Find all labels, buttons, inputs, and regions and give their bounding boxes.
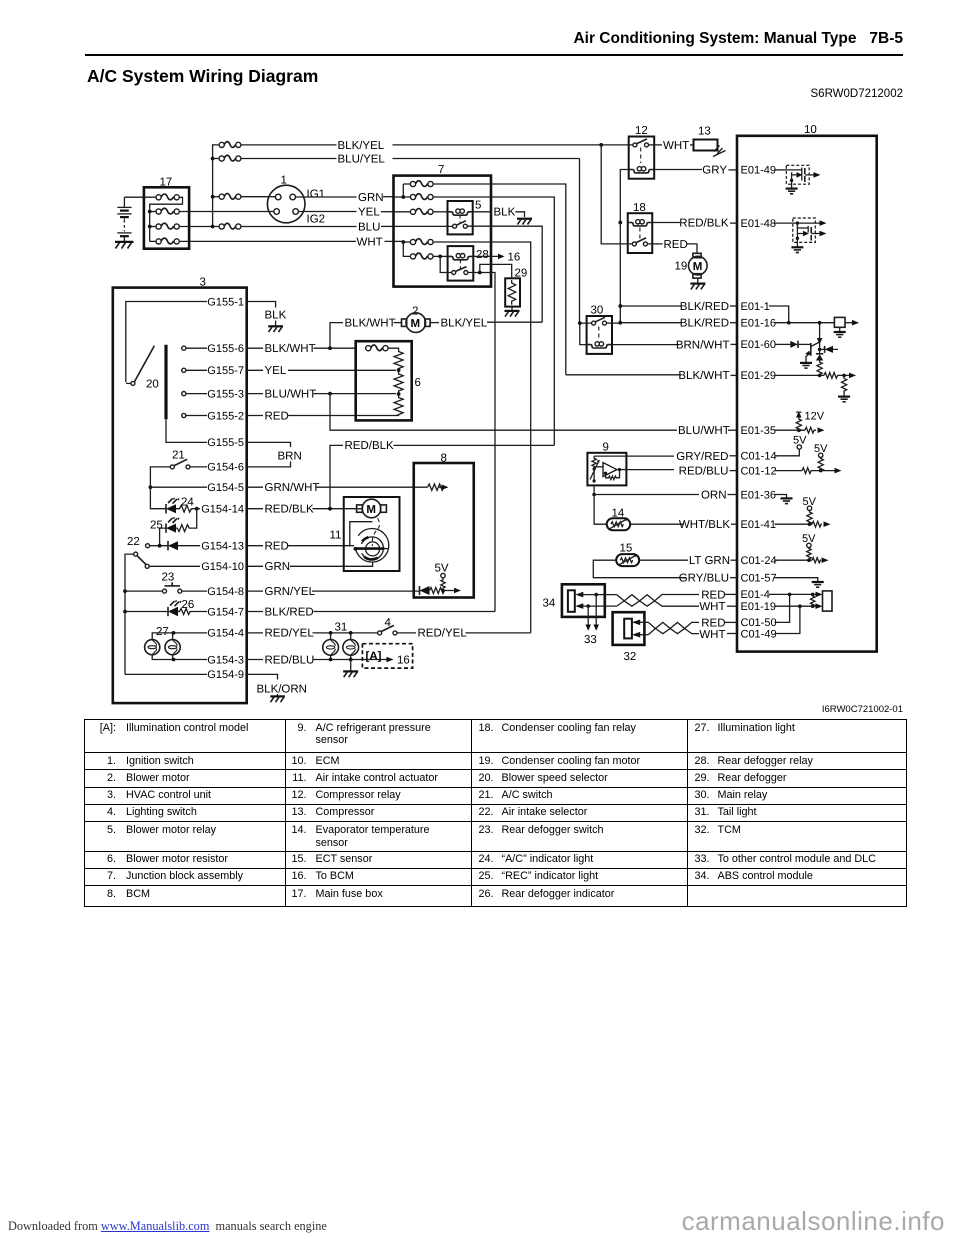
actuator motor M — [357, 499, 387, 518]
svg-text:12V: 12V — [805, 411, 825, 423]
fuse 17c — [150, 223, 180, 229]
terminal C01-49 — [741, 606, 800, 640]
wire fuse7a to E01-29 riser — [433, 184, 566, 375]
terminal E01-36 ground — [741, 489, 793, 503]
svg-text:BLU: BLU — [358, 221, 380, 233]
ABS control module 34 — [543, 584, 605, 617]
ground BLK/ORN — [270, 696, 285, 702]
ground under 31 — [343, 660, 358, 678]
wire fuse17a S-jog to bus — [150, 197, 183, 209]
vertical feed bus — [213, 145, 219, 227]
wire TCM RED pair — [632, 620, 648, 626]
svg-text:G154-10: G154-10 — [201, 561, 244, 573]
svg-text:WHT: WHT — [699, 629, 725, 641]
svg-text:C01-50: C01-50 — [741, 617, 777, 629]
wire relay18 coil RED/BLK — [652, 218, 737, 230]
ground BLK hvac — [268, 326, 283, 332]
wire LT GRN C01-24 — [639, 555, 737, 567]
svg-text:GRN/YEL: GRN/YEL — [265, 586, 316, 598]
vertical relay coils feed — [619, 223, 621, 323]
terminal E01-29 — [741, 370, 857, 402]
svg-text:16: 16 — [397, 655, 410, 667]
svg-text:23: 23 — [162, 572, 175, 584]
wire RED/BLK riser to ignition feed — [330, 440, 554, 509]
REC indicator light 25 — [150, 509, 197, 544]
diode resistor 5V inside BCM — [419, 563, 461, 596]
wire G154-14 RED/BLK to actuator — [247, 504, 362, 516]
wire battery to main fuse box — [124, 196, 152, 198]
svg-text:27: 27 — [156, 626, 169, 638]
terminal E01-41 — [741, 496, 831, 531]
svg-text:E01-41: E01-41 — [741, 519, 776, 531]
terminal C01-14 — [741, 435, 808, 463]
wire GRN fuse to IG1 — [241, 196, 275, 198]
svg-text:18: 18 — [633, 202, 646, 214]
svg-text:ORN: ORN — [701, 489, 727, 501]
terminal G155-2 — [182, 410, 244, 422]
svg-text:BLK/YEL: BLK/YEL — [441, 317, 488, 329]
svg-text:M: M — [366, 504, 376, 516]
svg-text:G155-7: G155-7 — [207, 365, 244, 377]
wire WHT into box7 — [385, 240, 404, 242]
svg-text:BLK/RED: BLK/RED — [265, 606, 314, 618]
fuse 7a — [403, 181, 433, 187]
wire relay12 WHT to compressor — [649, 140, 694, 152]
ground under 29 — [505, 307, 520, 317]
terminal G154-14 — [195, 504, 244, 516]
svg-text:E01-49: E01-49 — [741, 165, 776, 177]
wire G155-2 RED — [247, 410, 399, 422]
diode transistor circuit E01-60 — [790, 323, 838, 376]
wire BLU to relay5 switch — [394, 225, 453, 227]
svg-text:GRN/WHT: GRN/WHT — [265, 482, 320, 494]
svg-text:19: 19 — [675, 261, 688, 273]
wire GRY/BLU C01-57 — [593, 560, 737, 584]
mosfet driver E01-49 — [786, 165, 821, 194]
termination resistor between E01-4 E01-19 — [811, 594, 815, 606]
blower motor 2 — [402, 306, 431, 333]
svg-text:GRY/BLU: GRY/BLU — [679, 573, 729, 585]
junction block assembly 7 — [394, 164, 492, 287]
wire relay28 switch out — [468, 273, 495, 612]
svg-text:C01-24: C01-24 — [741, 555, 777, 567]
wire G154-9 BLK/ORN to ground — [247, 674, 307, 696]
svg-text:13: 13 — [698, 126, 711, 138]
fuse 7d — [403, 239, 433, 245]
rear defogger relay 28 — [448, 246, 489, 281]
svg-text:IG1: IG1 — [307, 189, 326, 201]
svg-text:7: 7 — [438, 164, 444, 176]
svg-text:5V: 5V — [435, 563, 449, 575]
svg-text:G155-3: G155-3 — [207, 388, 244, 400]
wire G154-10 GRN to actuator — [247, 561, 373, 573]
wire WHT E01-19 — [699, 601, 737, 613]
node GRN feed — [401, 195, 405, 199]
svg-text:BLU/WHT: BLU/WHT — [678, 425, 730, 437]
wire sensor9 ORN E01-36 — [592, 485, 737, 501]
svg-text:RED: RED — [265, 410, 289, 422]
svg-text:G154-9: G154-9 — [207, 669, 244, 681]
svg-text:2: 2 — [412, 306, 418, 318]
svg-text:BLK/RED: BLK/RED — [680, 301, 729, 313]
svg-text:E01-35: E01-35 — [741, 425, 776, 437]
svg-text:34: 34 — [543, 598, 556, 610]
svg-text:RED: RED — [701, 617, 725, 629]
svg-text:E01-60: E01-60 — [741, 339, 776, 351]
svg-text:28: 28 — [476, 249, 489, 261]
svg-text:5V: 5V — [793, 435, 807, 447]
svg-text:YEL: YEL — [265, 365, 287, 377]
svg-text:WHT/BLK: WHT/BLK — [679, 519, 730, 531]
wire G155-3 BLU/WHT — [247, 388, 396, 400]
wire branch to blower motor — [330, 317, 402, 348]
svg-text:RED/YEL: RED/YEL — [418, 628, 468, 640]
svg-text:G155-5: G155-5 — [207, 437, 244, 449]
lighting switch 4 — [378, 617, 531, 640]
wire G154-7 BLK/RED — [247, 606, 495, 618]
connector rect — [823, 591, 833, 611]
wire G155-6 BLK/WHT — [247, 343, 356, 355]
wire ABS RED pair — [575, 592, 616, 598]
svg-text:G154-7: G154-7 — [207, 606, 244, 618]
fuse 17b — [150, 208, 180, 214]
svg-text:3: 3 — [200, 277, 206, 289]
fuse 6a — [366, 345, 388, 351]
svg-text:BLU/WHT: BLU/WHT — [265, 388, 317, 400]
terminal C01-50 — [741, 594, 790, 629]
wire fuse7d out to RED/YEL drop — [433, 242, 531, 633]
12V supply — [796, 411, 825, 434]
arrows 33 to other modules — [584, 595, 599, 646]
svg-text:RED/YEL: RED/YEL — [265, 628, 315, 640]
node BLK/YEL to relay18 drop — [599, 143, 603, 147]
fuse 7c — [394, 209, 434, 215]
svg-text:BLK: BLK — [265, 310, 287, 322]
sensor square E01-16 — [834, 317, 859, 337]
svg-text:E01-4: E01-4 — [741, 589, 770, 601]
svg-text:22: 22 — [127, 536, 140, 548]
svg-text:10: 10 — [804, 124, 817, 136]
fuse FB (BLU/YEL) — [213, 155, 241, 161]
svg-text:9: 9 — [603, 442, 609, 454]
battery B1 — [117, 197, 131, 241]
wire relay28 coil feed jog — [440, 256, 452, 272]
ignition switch 1 — [267, 175, 325, 226]
svg-text:25: 25 — [150, 520, 163, 532]
svg-text:GRY/RED: GRY/RED — [676, 451, 728, 463]
wire WHT C01-49 — [699, 629, 737, 641]
svg-text:WHT: WHT — [357, 236, 383, 248]
wire GRY/RED C01-14 — [626, 451, 737, 463]
wire relay5 coil to BLK ground — [473, 207, 525, 219]
svg-text:RED/BLU: RED/BLU — [265, 654, 315, 666]
svg-text:16: 16 — [508, 251, 521, 263]
wire TCM WHT pair — [632, 632, 648, 638]
fuse 7e — [403, 242, 433, 259]
svg-text:E01-36: E01-36 — [741, 489, 776, 501]
svg-text:GRN: GRN — [358, 192, 384, 204]
wire G154-4 RED/YEL — [247, 628, 378, 640]
double mosfet driver E01-48 — [791, 218, 826, 253]
twisted pair 34 — [617, 595, 699, 607]
resistor + arrow GRN/WHT inside BCM — [428, 484, 449, 490]
pressure sensor 9 — [587, 442, 626, 486]
fuse 17a — [152, 194, 179, 200]
ECM 10 — [737, 124, 877, 652]
wire G155-1 BLK to ground — [247, 302, 287, 326]
svg-text:20: 20 — [146, 379, 159, 391]
svg-text:M: M — [411, 318, 421, 330]
svg-text:1: 1 — [281, 175, 287, 187]
svg-text:BLK/YEL: BLK/YEL — [338, 140, 385, 152]
wire BLK/YEL top — [241, 140, 633, 152]
svg-text:BLK/ORN: BLK/ORN — [257, 684, 308, 696]
main relay 30 — [587, 305, 612, 354]
wire fuse7b GRN to RED/BLK riser — [433, 197, 554, 445]
node relay18 coil — [618, 221, 622, 225]
svg-text:M: M — [693, 261, 703, 273]
wire fuse17d WHT out — [179, 240, 356, 242]
svg-text:RED/BLK: RED/BLK — [265, 504, 315, 516]
node bus-BLU — [211, 225, 215, 229]
svg-text:G154-8: G154-8 — [207, 586, 244, 598]
wire G154-8 GRN/YEL to BCM — [247, 586, 419, 598]
illumination lights 27 — [145, 626, 244, 666]
terminal E01-19 — [741, 601, 823, 613]
terminal E01-35 — [741, 425, 806, 437]
svg-text:RED/BLK: RED/BLK — [345, 440, 395, 452]
terminal E01-48 — [741, 218, 793, 230]
wire BLU/YEL drop to relay 30 — [579, 159, 581, 324]
ECT sensor 15 — [616, 543, 639, 567]
rear defogger 29 — [505, 268, 527, 307]
svg-text:32: 32 — [624, 651, 637, 663]
wire G154-3 RED/BLU — [247, 654, 410, 666]
svg-text:G154-3: G154-3 — [207, 654, 244, 666]
svg-text:GRY: GRY — [702, 165, 727, 177]
wire relay30 switch BLK/RED E01-16 — [607, 318, 738, 330]
wire fuse7c to relay5 coil — [433, 211, 447, 213]
svg-text:6: 6 — [415, 377, 421, 389]
terminal E01-4 — [741, 589, 823, 601]
svg-text:WHT: WHT — [699, 601, 725, 613]
condenser fan relay 18 — [628, 202, 653, 253]
wire relay12 coil GRY — [654, 165, 737, 177]
wire RED/BLU C01-12 — [626, 465, 737, 477]
svg-text:BLK: BLK — [494, 207, 516, 219]
fuse 7b — [394, 194, 434, 200]
actuator drum — [350, 518, 389, 562]
terminal E01-60 — [741, 339, 791, 351]
svg-text:GRN: GRN — [265, 561, 291, 573]
terminal C01-24 — [741, 533, 829, 567]
svg-text:BLK/WHT: BLK/WHT — [345, 317, 396, 329]
svg-text:RED: RED — [664, 239, 688, 251]
wire relay30 coil BRN/WHT E01-60 — [612, 339, 737, 351]
svg-text:31: 31 — [335, 622, 348, 634]
svg-text:G154-4: G154-4 — [207, 628, 244, 640]
wire fuse7e to relay28 — [433, 255, 448, 257]
wire relay18 switch RED to fan motor — [647, 239, 697, 253]
svg-text:29: 29 — [515, 268, 528, 280]
svg-text:33: 33 — [584, 634, 597, 646]
svg-text:E01-48: E01-48 — [741, 218, 776, 230]
svg-text:11: 11 — [330, 530, 342, 542]
svg-text:LT GRN: LT GRN — [689, 555, 730, 567]
twisted pair 32 — [648, 622, 699, 634]
svg-text:BLU/YEL: BLU/YEL — [338, 154, 386, 166]
wire BLK/RED E01-1 — [620, 301, 737, 313]
main fuse box 17 — [144, 177, 189, 249]
svg-text:C01-14: C01-14 — [741, 451, 777, 463]
node WHT feed — [401, 240, 405, 244]
svg-text:BLK/WHT: BLK/WHT — [678, 370, 729, 382]
blower motor relay 5 — [448, 200, 482, 235]
terminal G154-9 — [125, 669, 244, 681]
svg-text:C01-57: C01-57 — [741, 573, 777, 585]
HVAC control unit 3 — [113, 277, 247, 704]
wire node to relay30 switch and coil — [580, 323, 592, 345]
bus fuse7a-7b — [402, 184, 404, 197]
terminal G155-1 — [126, 296, 244, 382]
BCM 8 — [414, 453, 474, 598]
svg-text:24: 24 — [181, 497, 194, 509]
fuse FC (GRN/IG1) — [213, 193, 241, 199]
wire BLU/WHT branch to E01-35 — [330, 394, 737, 438]
svg-text:C01-12: C01-12 — [741, 465, 777, 477]
svg-text:15: 15 — [620, 543, 633, 555]
wire RED C01-50 — [701, 617, 737, 629]
svg-text:21: 21 — [172, 450, 185, 462]
blower speed selector 20 — [126, 345, 207, 443]
condenser fan motor 19 — [675, 253, 708, 283]
A/C indicator light 24 — [150, 487, 196, 513]
wire BLU — [241, 221, 394, 233]
svg-text:5: 5 — [475, 200, 481, 212]
svg-text:WHT: WHT — [663, 140, 689, 152]
svg-text:C01-49: C01-49 — [741, 628, 777, 640]
svg-text:RED: RED — [701, 589, 725, 601]
svg-text:30: 30 — [591, 305, 604, 317]
svg-text:G154-13: G154-13 — [201, 541, 244, 553]
resistor chain in 6 — [388, 348, 403, 415]
wire BLK/WHT E01-29 — [566, 370, 737, 382]
wire relay28 to rear defogger 29 — [480, 264, 512, 278]
svg-text:E01-16: E01-16 — [741, 318, 776, 330]
wire fuse17c to BLU fuse — [179, 226, 218, 228]
svg-text:G154-14: G154-14 — [201, 504, 244, 516]
terminal E01-49 — [741, 165, 787, 177]
wire BLK/YEL drop to relay18 switch — [601, 145, 632, 244]
svg-text:G154-5: G154-5 — [207, 482, 244, 494]
fuse FD (BLU) — [219, 223, 241, 229]
wire relay28 coil to 16 arrow — [473, 251, 520, 263]
rear defogger indicator 26 — [123, 599, 244, 618]
A/C switch 21 — [150, 450, 244, 486]
svg-text:G155-2: G155-2 — [207, 410, 244, 422]
fuse 17d — [150, 238, 180, 244]
wire G155-7 YEL — [247, 365, 396, 377]
air intake selector 22 — [125, 536, 244, 674]
ground under motor 19 — [690, 284, 705, 290]
compressor relay 12 — [629, 125, 655, 179]
bus inside box 17 — [149, 209, 151, 242]
svg-text:26: 26 — [182, 599, 195, 611]
terminal G155-7 — [182, 365, 244, 377]
evaporator temp sensor 14 — [594, 495, 630, 531]
wire G154-13 RED to actuator — [247, 541, 354, 553]
terminal C01-57 ground — [741, 573, 824, 588]
rear defogger switch 23 — [123, 572, 244, 598]
svg-text:17: 17 — [160, 177, 173, 189]
wire WHT/BLK E01-41 — [630, 519, 737, 531]
terminal E01-16 — [741, 318, 835, 330]
svg-text:BLK/RED: BLK/RED — [680, 318, 729, 330]
node BLU/YEL relay30 — [578, 321, 582, 325]
terminal G155-3 — [182, 388, 244, 400]
ground under battery — [115, 242, 134, 249]
svg-text:RED/BLK: RED/BLK — [679, 218, 729, 230]
air intake control actuator 11 — [330, 497, 400, 571]
illumination model box [A] — [362, 644, 412, 668]
wire relay12 coil to relay18 coil — [620, 170, 628, 223]
wire G155-5 BRN loop to G154-6 — [247, 442, 302, 467]
svg-text:E01-19: E01-19 — [741, 601, 776, 613]
svg-text:G155-6: G155-6 — [207, 343, 244, 355]
svg-text:12: 12 — [635, 125, 648, 137]
svg-text:RED/BLU: RED/BLU — [679, 465, 729, 477]
ground BLK relay5 — [517, 219, 532, 225]
wire RED E01-4 — [701, 589, 737, 601]
wire BLU/YEL top — [241, 154, 580, 166]
blower motor resistor 6 — [356, 341, 421, 420]
wire relay5 switch out to motor drop — [467, 226, 542, 322]
svg-text:E01-29: E01-29 — [741, 370, 776, 382]
terminal C01-12 — [741, 443, 842, 478]
svg-text:E01-1: E01-1 — [741, 301, 770, 313]
svg-text:BRN: BRN — [278, 451, 302, 463]
terminal E01-1 — [741, 301, 789, 323]
svg-text:BRN/WHT: BRN/WHT — [676, 339, 730, 351]
tail lights 31 — [323, 622, 359, 660]
terminal G154-5 — [149, 482, 245, 494]
wire IG1 out GRN — [296, 192, 394, 204]
svg-text:BLK/WHT: BLK/WHT — [265, 343, 316, 355]
svg-text:8: 8 — [441, 453, 447, 465]
svg-text:IG2: IG2 — [307, 214, 326, 226]
svg-text:YEL: YEL — [358, 207, 380, 219]
svg-text:[A]: [A] — [366, 651, 382, 663]
TCM 32 — [613, 612, 645, 663]
svg-text:G155-1: G155-1 — [207, 296, 244, 308]
wire ABS WHT pair — [575, 603, 616, 609]
wire motor2 BLK/YEL — [430, 317, 542, 329]
svg-text:RED: RED — [265, 541, 289, 553]
svg-text:G154-6: G154-6 — [207, 462, 244, 474]
fuse FA (BLK/YEL) — [219, 142, 241, 148]
compressor 13 — [694, 126, 726, 157]
terminal G155-6 — [182, 343, 244, 355]
wire fuse17b to IG2 — [179, 211, 273, 213]
wire G154-5 GRN/WHT to BCM — [247, 482, 428, 494]
wire IG2 out YEL — [298, 207, 393, 219]
